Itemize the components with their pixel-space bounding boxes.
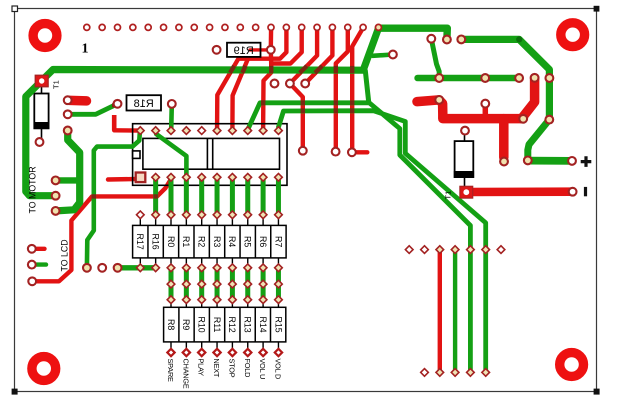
wire fat elbow up to rounded top [522, 78, 535, 118]
diode D1 body [34, 94, 48, 129]
svg-text:R4: R4 [227, 236, 237, 247]
wire pad17 diagonal to via pad [305, 27, 332, 83]
button labels [166, 359, 282, 389]
lead stubs resistor arrays [140, 218, 278, 349]
wire array row A to row C stubs [171, 268, 278, 300]
wire branch stub to pad [373, 55, 393, 56]
svg-text:R18: R18 [134, 98, 154, 110]
minus terminal [584, 187, 587, 196]
svg-text:R2: R2 [197, 236, 207, 247]
pin 11 square pad [136, 173, 146, 183]
resistor array R17,R16,R0-R7 box row [133, 225, 287, 258]
svg-text:R9: R9 [181, 319, 191, 330]
pad R18 left [114, 100, 122, 108]
wire hook down-left to plus rail [528, 120, 550, 161]
svg-text:R6: R6 [258, 236, 268, 247]
wire crossings on trace A [263, 100, 352, 105]
svg-text:R0: R0 [166, 236, 176, 247]
svg-text:VOL U: VOL U [258, 359, 267, 380]
wire fat bar top-right [417, 100, 522, 119]
svg-text:1: 1 [82, 42, 89, 57]
wire pad19 down to pad with stub [352, 27, 363, 149]
wire crossings on trace B [303, 108, 352, 113]
pad motor 3 [52, 207, 60, 215]
wire top-right pad elbow [431, 39, 439, 78]
svg-text:R15: R15 [273, 317, 283, 333]
wire R19 stub [250, 48, 266, 51]
via A [271, 80, 279, 88]
svg-text:T1: T1 [52, 80, 61, 89]
wire feeder from ground bend down to trace A corner [365, 71, 368, 103]
pad plus left [524, 157, 532, 165]
svg-text:TO LCD: TO LCD [60, 239, 70, 271]
mounting hole top-right [561, 23, 585, 47]
pad N3 [515, 74, 523, 82]
svg-text:R1: R1 [181, 236, 191, 247]
wire mid horizontal right [418, 75, 519, 82]
wire TO MOTOR hook main [56, 131, 80, 211]
svg-text:R8: R8 [166, 319, 176, 330]
wire stub left pad [32, 262, 46, 266]
pad Q4 [435, 96, 443, 104]
resistor array R8-R15 box row [164, 307, 286, 342]
wire crossings dark shading under ground trace [271, 66, 352, 73]
via B [286, 80, 294, 88]
wire stub right of pad19 trace [353, 150, 368, 154]
wire pad16 diagonal to via pad [290, 27, 317, 83]
pad R19 left [213, 46, 221, 54]
pad N1 [435, 74, 443, 82]
pad P1-2 [64, 110, 72, 118]
svg-text:NEXT: NEXT [212, 359, 221, 378]
svg-text:R16: R16 [150, 234, 160, 250]
corner marker top-right [594, 6, 600, 12]
pad M1 [427, 35, 435, 43]
pad K2 [332, 148, 340, 156]
svg-text:SPARE: SPARE [166, 359, 175, 383]
svg-text:R13: R13 [243, 317, 253, 333]
wire branch steep diagonal to IC pin7 [232, 59, 248, 131]
transistor T1 leads [464, 133, 466, 141]
pad Q1 [531, 74, 539, 82]
wire stub left pad [32, 247, 45, 251]
wire crossing red under green verticals at IC bottom [92, 194, 158, 198]
wire crossing near R18 [112, 103, 116, 107]
pad T1 collector [461, 127, 469, 135]
wire stub up to pad [483, 104, 489, 115]
pad J2-3 [114, 264, 122, 272]
svg-text:R19: R19 [234, 45, 254, 57]
svg-text:R10: R10 [197, 317, 207, 333]
via D [389, 51, 397, 59]
pad motor 2 [52, 192, 60, 200]
op-amp U1 DIP outline [133, 124, 287, 186]
svg-text:PLAY: PLAY [197, 359, 206, 377]
wire R18 left pad down and right to IC pin1 [112, 115, 117, 130]
corner marker top-left [12, 6, 18, 12]
wire pad18 down to pad [336, 27, 348, 149]
wire TO LCD long trace to IC bottom pin [32, 180, 171, 282]
resistor R19 box [227, 43, 261, 57]
svg-text:STOP: STOP [227, 359, 236, 378]
pad K3 [348, 148, 356, 156]
svg-text:T1: T1 [444, 191, 453, 200]
svg-text:FOLD: FOLD [243, 359, 252, 378]
pad M2 [443, 36, 451, 44]
pad minus right [569, 188, 577, 196]
pad LCD 1 [28, 245, 36, 253]
wire left pad to R18 left pad [68, 104, 118, 115]
pad LCD 2 [28, 261, 36, 269]
wire hook arm [56, 177, 80, 183]
misc pads [28, 35, 577, 285]
corner marker bottom-right [594, 389, 600, 395]
connector header top pad row [84, 24, 382, 30]
plus terminal [581, 156, 592, 167]
wire red vertical bottom-right columns [438, 250, 442, 373]
wire top-left fat stub [70, 96, 87, 106]
pad K1 [299, 147, 307, 155]
pad Q5 [481, 100, 489, 108]
square pad T1 emitter [460, 186, 473, 198]
wire trace B: IC pin10 up to long route to bottom pads [279, 111, 486, 373]
wire pad up along left to IC pin1 [87, 131, 140, 268]
op-amp U1 pads [136, 127, 283, 182]
pad Q2 [519, 115, 527, 123]
wire green vertical to bottom pad row [453, 250, 457, 373]
wire pad14 horizontal jog steep diagonal to IC pin6 [217, 27, 286, 130]
wire plus rail [528, 157, 572, 165]
mounting hole bottom-left [32, 357, 56, 381]
mounting hole bottom-right [560, 353, 584, 377]
svg-text:R17: R17 [135, 234, 145, 250]
wire red into IC bottom square pad [108, 177, 136, 182]
resistor row 2 labels [166, 317, 283, 333]
corner marker bottom-left [12, 389, 18, 395]
pad J2-1 [83, 264, 91, 272]
pad P1-3 [64, 127, 72, 135]
wire via pad V-bend down to pad [290, 84, 303, 149]
pad LCD 3 [28, 277, 36, 285]
pad D1 cathode [36, 138, 44, 146]
pad plus right [568, 157, 576, 165]
pad N5 [545, 116, 553, 124]
pad J2-2 [98, 264, 106, 272]
wire fat branch down to pad [499, 119, 509, 158]
pad N4 [546, 74, 554, 82]
svg-text:TO MOTOR: TO MOTOR [28, 166, 38, 213]
pad R18 right [168, 100, 176, 108]
transistor T1 body [455, 141, 474, 177]
svg-text:CHANGE: CHANGE [181, 359, 190, 389]
pad N2 [481, 74, 489, 82]
wire R18 right pad to IC pin3 [169, 104, 174, 130]
wire top-right corner elbow [461, 39, 549, 119]
svg-text:R11: R11 [212, 317, 222, 333]
wire pad15 elbow joining pad13 column [271, 27, 302, 63]
svg-text:R14: R14 [258, 317, 268, 333]
wire trace A: IC pin8 up to long route to bottom pads [248, 103, 471, 373]
pad P1-1 [64, 96, 72, 104]
square pad top-left [35, 75, 48, 87]
diode D1 leads [41, 86, 43, 94]
via C [301, 80, 309, 88]
wire pad13 through R19 right pad to IC pin9 [263, 27, 271, 130]
resistor row 1 labels [135, 234, 283, 250]
wire minus rail [466, 187, 572, 196]
svg-text:VOL D: VOL D [273, 359, 282, 380]
pad motor 1 [52, 177, 60, 185]
pad Q3 [500, 158, 508, 166]
bottom-right pad columns [405, 246, 504, 376]
pin-1 notch [133, 151, 140, 159]
svg-text:R7: R7 [273, 236, 283, 247]
svg-text:R12: R12 [227, 317, 237, 333]
resistor array pads [136, 211, 282, 356]
wire IC bottom pin stubs to array row [156, 179, 279, 215]
pad R19 right [267, 46, 275, 54]
wire inside IC pin2 to bottom pin4 [156, 132, 187, 177]
wire pad20 horizontal to pad [379, 28, 448, 39]
mounting hole top-left [33, 24, 57, 48]
svg-text:R5: R5 [243, 236, 253, 247]
svg-text:R3: R3 [212, 236, 222, 247]
wire row A feed horizontal [118, 265, 157, 270]
wire main ground trace from pad20 along top and down left edge [26, 28, 379, 196]
resistor R18 box [127, 95, 162, 110]
via dark green [516, 36, 522, 42]
pad M3 [457, 36, 465, 44]
